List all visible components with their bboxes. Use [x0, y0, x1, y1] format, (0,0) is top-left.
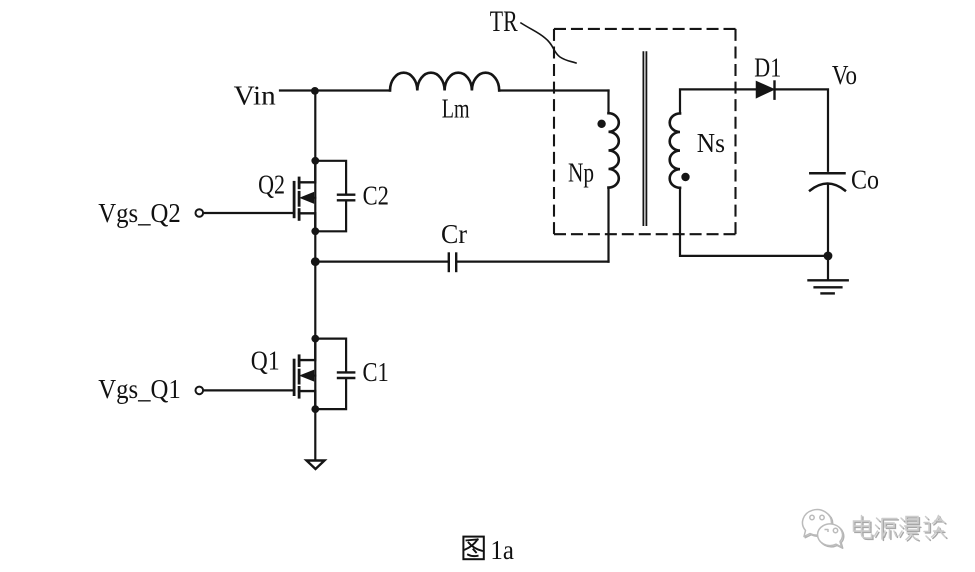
svg-text:Vgs_Q2: Vgs_Q2	[98, 198, 181, 228]
svg-text:Vo: Vo	[832, 60, 857, 90]
svg-text:1a: 1a	[490, 535, 514, 565]
svg-text:Vgs_Q1: Vgs_Q1	[98, 374, 181, 404]
svg-text:Vin: Vin	[234, 81, 277, 111]
svg-text:Q2: Q2	[258, 170, 285, 200]
svg-text:D1: D1	[754, 53, 781, 83]
svg-text:Lm: Lm	[442, 93, 470, 123]
svg-text:Np: Np	[568, 157, 594, 187]
svg-text:TR: TR	[490, 5, 518, 38]
svg-text:Q1: Q1	[251, 346, 280, 376]
svg-text:C2: C2	[363, 181, 389, 211]
svg-text:Co: Co	[851, 164, 879, 194]
svg-text:Cr: Cr	[441, 219, 467, 249]
svg-text:C1: C1	[363, 357, 389, 387]
svg-text:Ns: Ns	[697, 128, 725, 158]
